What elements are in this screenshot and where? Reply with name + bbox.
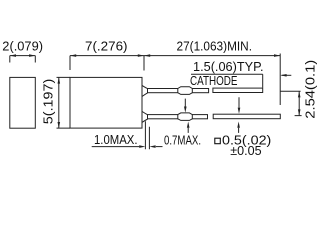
front view body	[70, 77, 142, 128]
svg-text:5(.197): 5(.197)	[41, 79, 56, 125]
right arrow of 1.5 TYP at lead end	[282, 74, 292, 76]
dim 2(.079) arrows	[10, 54, 36, 57]
dim 7(.276) line	[70, 56, 144, 71]
side view body	[10, 77, 36, 128]
leader for 1.5(.06)TYP.	[191, 74, 263, 87]
0.7MAX crimp pointer arrow (up)	[187, 128, 189, 133]
svg-text:7(.276): 7(.276)	[85, 38, 128, 53]
anode lead (bottom) bar left	[148, 115, 208, 119]
crimp pointer arrow (down)	[184, 99, 186, 107]
dim 27(1.063)MIN. line	[144, 54, 280, 106]
0.7MAX arrow	[156, 146, 163, 148]
dim 5(.197) arrows	[58, 77, 61, 128]
dim 27 arrows	[144, 54, 280, 57]
svg-text:±0.05: ±0.05	[230, 143, 261, 158]
anode lead taper at body	[142, 112, 148, 123]
cathode lead taper at body	[142, 86, 148, 97]
svg-text:2(.079): 2(.079)	[2, 38, 43, 53]
svg-text:1.0MAX.: 1.0MAX.	[94, 132, 138, 147]
0.5 lead pointer arrow (down, above bottom lead)	[238, 97, 240, 107]
cathode lead bar right	[213, 88, 263, 92]
extension lines below body for 1.0MAX / 0.7MAX	[145, 121, 149, 149]
cathode lead (top) bar left	[148, 89, 209, 93]
dim 2.54(0.1)	[280, 91, 301, 115]
dim 7(.276) arrows	[70, 54, 144, 57]
svg-text:CATHODE: CATHODE	[190, 73, 238, 88]
dim 2(.079) line	[10, 56, 36, 63]
dim 5(.197) line	[57, 77, 71, 128]
anode lead crimp	[178, 113, 193, 121]
svg-text:0.7MAX.: 0.7MAX.	[164, 133, 201, 148]
cathode lead crimp	[178, 87, 193, 95]
square symbol for 0.5	[215, 138, 221, 144]
anode lead bar right	[213, 114, 280, 119]
1.0MAX leader with arrow	[92, 146, 140, 148]
0.5 square lead pointer arrow (up)	[238, 128, 240, 133]
svg-text:2.54(0.1): 2.54(0.1)	[303, 60, 318, 119]
svg-text:1.5(.06)TYP.: 1.5(.06)TYP.	[193, 59, 264, 74]
svg-text:27(1.063)MIN.: 27(1.063)MIN.	[177, 38, 253, 53]
